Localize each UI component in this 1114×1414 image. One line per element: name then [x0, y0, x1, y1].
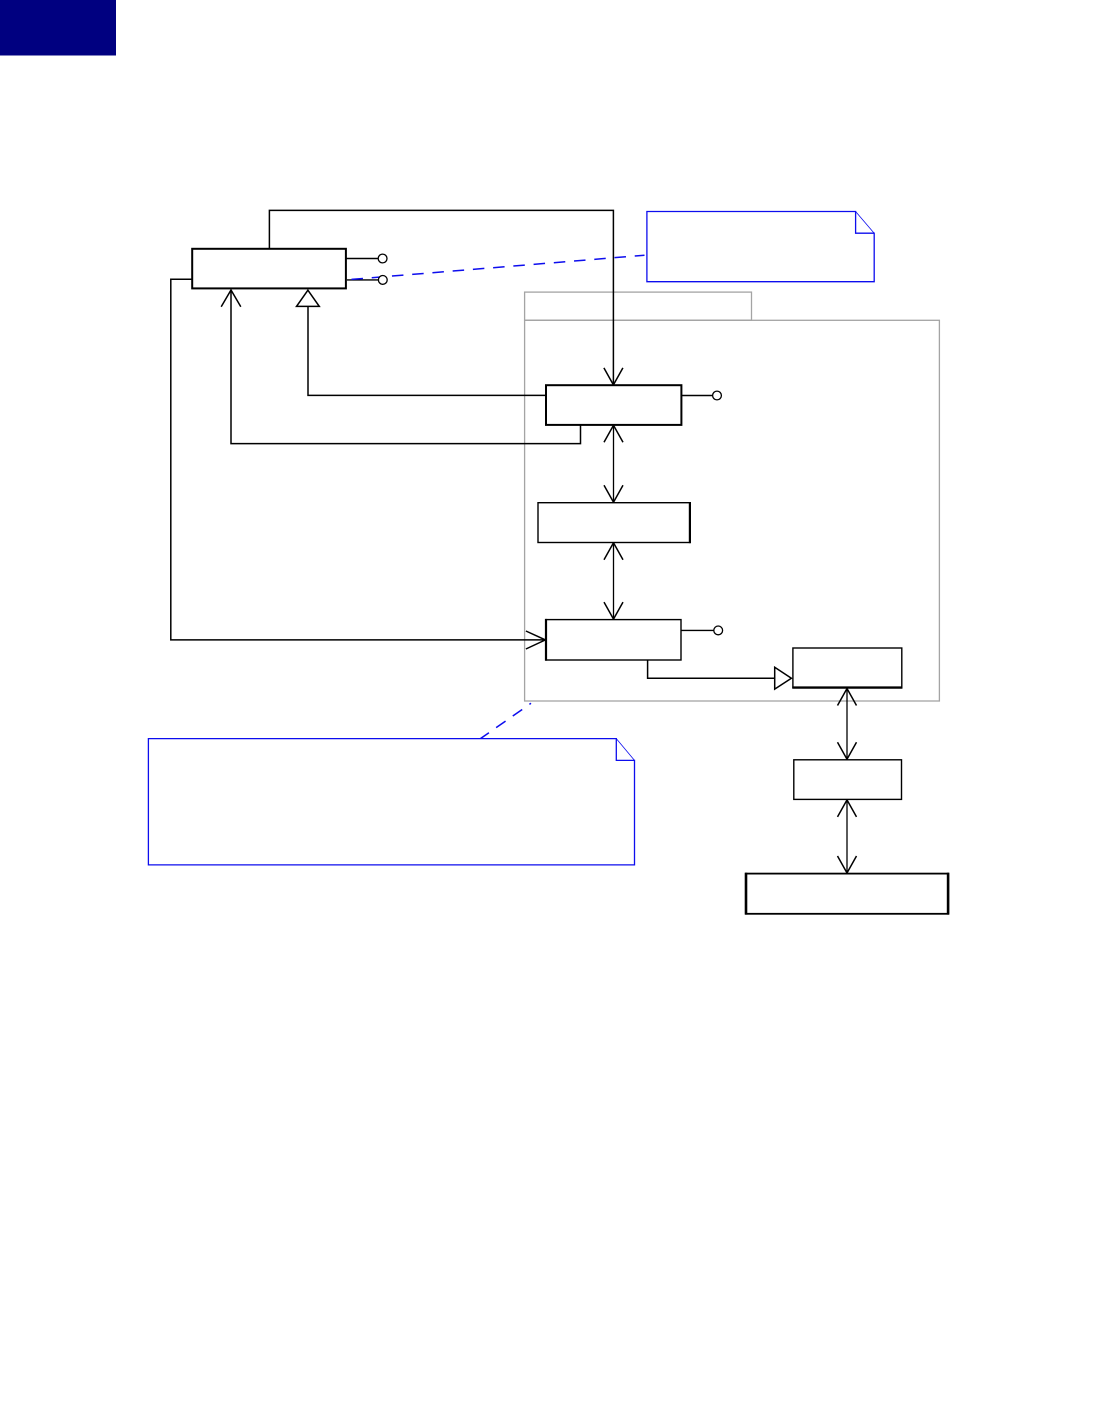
arrowhead into box B top	[604, 368, 623, 385]
association box B - box C	[613, 425, 615, 502]
package body (gray)	[525, 320, 940, 701]
box G thick right edge	[947, 873, 950, 915]
arrowhead into box E bottom	[838, 689, 857, 706]
association box E - box F	[846, 688, 848, 760]
wire box A top to box B top	[269, 210, 613, 384]
box G thick left edge	[745, 873, 748, 915]
association box C - box D	[613, 543, 615, 620]
dashed link note N1 to box A	[352, 255, 645, 279]
interface lollipop A2 circle	[378, 276, 387, 285]
interface lollipop A1	[346, 258, 378, 260]
box G	[746, 874, 948, 914]
box D	[546, 620, 681, 660]
box D thick left edge	[545, 619, 547, 661]
interface lollipop B1	[681, 395, 712, 397]
box B	[546, 385, 681, 425]
dashed link note N2 to package	[480, 703, 532, 739]
arrowhead into box F bottom	[838, 800, 857, 817]
package tab (gray)	[525, 292, 752, 320]
interface lollipop D1	[681, 629, 714, 631]
note N2	[148, 739, 634, 865]
arrowhead into box B bottom	[604, 425, 623, 442]
box C thick right edge	[689, 502, 691, 543]
arrowhead into box A bottom	[221, 290, 241, 307]
association box F - box G	[846, 799, 848, 873]
hollow triangle at box A bottom	[297, 290, 320, 306]
box E	[793, 648, 902, 688]
arrowhead into box G top	[838, 856, 857, 873]
note N1 fold crease	[856, 212, 875, 234]
interface lollipop A2	[347, 279, 378, 281]
wire box D bottom to triangle at box E left	[648, 660, 775, 678]
arrowhead into box D top	[604, 602, 623, 619]
arrowhead into box C top	[604, 485, 623, 502]
box C	[538, 503, 690, 543]
box E thick bottom edge	[792, 686, 902, 688]
note N2 fold crease	[616, 739, 634, 761]
wire generalization box B to box A (shaft)	[308, 306, 546, 395]
box A	[192, 249, 346, 289]
arrowhead into box D left	[526, 631, 546, 649]
wire box A left to box D left	[171, 279, 545, 640]
arrowhead into box C bottom	[604, 543, 623, 560]
header navy block	[0, 0, 116, 56]
hollow triangle at box E left	[775, 667, 792, 689]
box F	[794, 760, 902, 800]
note N1	[647, 212, 874, 282]
arrowhead into box F top	[838, 742, 857, 759]
wire box B bottom loop to box A bottom	[231, 291, 581, 444]
